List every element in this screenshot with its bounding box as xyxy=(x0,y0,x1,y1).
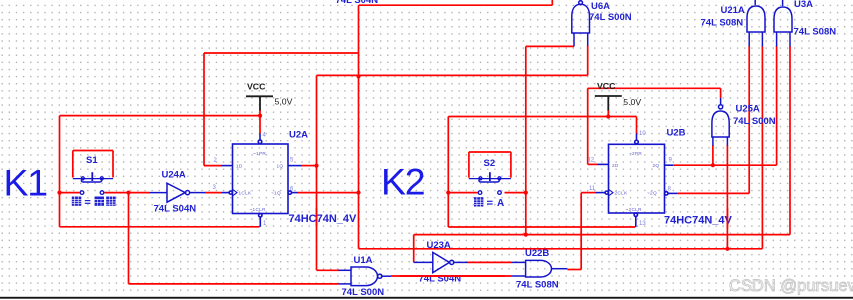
wire U21A input A vertical xyxy=(748,46,750,193)
wire U3A input B vertical xyxy=(789,46,791,235)
wire U2A ~1Q to node xyxy=(298,192,359,194)
wire to U1A input A xyxy=(317,269,340,271)
wire U1A output over label xyxy=(400,275,505,277)
svg-text:S1: S1 xyxy=(86,155,98,166)
pin 5 U2A xyxy=(290,158,294,164)
wire VCC1 rail vertical left xyxy=(59,116,61,227)
label U22B xyxy=(525,248,549,259)
wire S2 left terminal xyxy=(448,192,477,194)
pin 1 U2A xyxy=(263,221,267,227)
svg-text:10: 10 xyxy=(639,131,646,137)
label U2A part number xyxy=(289,213,358,225)
wire U2A 1Q to node xyxy=(302,165,317,167)
svg-text:U1A: U1A xyxy=(354,255,373,266)
inverter U24A xyxy=(150,183,206,202)
label VCC1 voltage xyxy=(275,97,293,107)
svg-text:~1Q: ~1Q xyxy=(271,190,281,195)
inverter U23A xyxy=(414,252,468,272)
pin 8 U2B xyxy=(668,186,672,192)
svg-text:2CLK: 2CLK xyxy=(615,190,628,195)
wire 1Q net vertical over label xyxy=(316,208,318,226)
label VCC1 xyxy=(247,82,266,92)
wire U25A input B vertical xyxy=(726,145,728,249)
svg-text:1Q: 1Q xyxy=(277,163,284,168)
svg-text:74HC74N_4V: 74HC74N_4V xyxy=(664,214,733,226)
flip-flop U2A 74HC74 xyxy=(221,134,302,227)
junction VCC2 rail xyxy=(606,114,610,118)
NAND gate U25A (vertical) xyxy=(712,98,729,146)
label U1A part number xyxy=(342,287,385,298)
flip-flop U2B 74HC74 xyxy=(596,134,678,228)
wire U2B ~2CLR horizontal xyxy=(448,226,635,228)
wire netA horizontal y249 xyxy=(359,248,763,250)
wire U2A ~1CLR net xyxy=(60,226,260,228)
pin 10 U2B xyxy=(639,131,646,137)
svg-text:K2: K2 xyxy=(381,161,424,203)
svg-text:U6A: U6A xyxy=(591,1,610,12)
svg-text:1D: 1D xyxy=(236,163,243,168)
wire S1 left terminal xyxy=(60,192,80,194)
label U25A part number xyxy=(733,116,776,127)
svg-text:VCC: VCC xyxy=(247,82,266,92)
svg-text:11: 11 xyxy=(589,186,596,192)
wire VCC1 to U2A ~1PR xyxy=(259,110,261,134)
wire U2A 1D net vertical xyxy=(203,53,205,166)
svg-text:13: 13 xyxy=(639,221,646,227)
label VCC2 xyxy=(597,81,616,91)
pin 13 U2B xyxy=(639,221,646,227)
wire S1 node vertical to U1A xyxy=(128,193,130,284)
label S2 xyxy=(484,158,496,169)
U2B internal pin names xyxy=(612,151,659,212)
wire S1 loop left xyxy=(72,151,74,178)
label U23A xyxy=(427,240,451,251)
wire U25A output horizontal y88 xyxy=(588,87,721,89)
wire S1 loop right xyxy=(112,151,114,178)
wire top horizontal y5 xyxy=(359,4,553,6)
svg-text:5.0V: 5.0V xyxy=(275,97,293,107)
pin 11 U2B xyxy=(589,186,596,192)
wire to U2B 2D xyxy=(588,163,598,165)
wire S2 loop right xyxy=(510,152,512,178)
wire U23A input vertical xyxy=(413,235,415,263)
wire VCC1 rail horizontal xyxy=(60,115,261,117)
wire net75 horizontal to U6A xyxy=(317,74,588,76)
switch S1 xyxy=(73,172,113,194)
wire U3A input A vertical xyxy=(776,46,778,165)
junction VCC1 rail xyxy=(258,114,262,118)
wire U2A 1D net horizontal xyxy=(204,165,221,167)
svg-text:74L S08N: 74L S08N xyxy=(701,17,744,28)
junction netA x727 xyxy=(725,247,729,251)
wire 1Q net vertical xyxy=(316,75,318,270)
pin 4 U2A xyxy=(263,133,267,139)
junction net75 x358 xyxy=(356,74,360,78)
label S2 key caption xyxy=(474,197,504,209)
svg-text:U2A: U2A xyxy=(289,130,308,141)
svg-text:CSDN @pursuev: CSDN @pursuev xyxy=(729,277,853,295)
junction net234 x526 xyxy=(524,233,528,237)
wire net88 vertical to 2D xyxy=(587,88,589,164)
U2A internal pin names xyxy=(236,151,283,212)
AND gate U22B xyxy=(512,260,568,277)
wire U21A input B vertical xyxy=(761,46,763,249)
wire U6A input B vertical xyxy=(587,46,589,76)
junction S1 right node xyxy=(126,191,130,195)
wire S2 loop left xyxy=(468,152,470,178)
junction S2 right node xyxy=(524,191,528,195)
pin 12 U2B xyxy=(588,158,595,164)
svg-text:74L S00N: 74L S00N xyxy=(733,116,776,127)
wire U22B output segment xyxy=(567,269,581,271)
svg-text:74L S04N: 74L S04N xyxy=(154,204,197,215)
label U21A part number xyxy=(701,17,744,28)
VCC1 power symbol xyxy=(246,96,273,110)
label VCC2 voltage xyxy=(623,97,641,107)
svg-text:~2CLR: ~2CLR xyxy=(626,207,643,212)
junction 1Q node xyxy=(314,164,318,168)
svg-text:~1PR: ~1PR xyxy=(253,151,266,156)
svg-text:U2B: U2B xyxy=(667,128,686,139)
svg-text:U22B: U22B xyxy=(525,248,549,259)
svg-text:K1: K1 xyxy=(4,162,48,204)
svg-text:74L S04N: 74L S04N xyxy=(419,273,462,284)
label U22B part number xyxy=(516,280,559,291)
wire U23A output to U22B xyxy=(468,261,512,263)
wire U25A input A vertical xyxy=(712,145,714,165)
svg-text:S2: S2 xyxy=(484,158,496,169)
VCC2 power symbol xyxy=(595,96,622,111)
wire U2B ~2Q net horizontal xyxy=(678,192,750,194)
label U25A xyxy=(736,104,760,115)
svg-text:U25A: U25A xyxy=(736,104,760,115)
svg-text:2Q: 2Q xyxy=(653,163,660,168)
wire VCC2 vertical to ~2CLR xyxy=(447,117,449,228)
svg-text:A: A xyxy=(497,198,504,209)
wire net234 horizontal xyxy=(414,234,790,236)
wire S1 loop top xyxy=(73,150,113,152)
label U6A xyxy=(591,1,610,12)
label U24A part number xyxy=(154,204,197,215)
label U21A xyxy=(721,5,745,16)
svg-text:~2Q: ~2Q xyxy=(647,190,657,195)
wire VCC2 rail horizontal xyxy=(448,116,636,118)
label U2A xyxy=(289,130,308,141)
wire U6A input A vertical xyxy=(525,46,527,234)
label U1A xyxy=(354,255,373,266)
AND gate U21A (vertical) xyxy=(747,0,765,46)
wire 1D net top horizontal xyxy=(204,52,359,54)
svg-text:~1CLR: ~1CLR xyxy=(250,207,267,212)
pin 9 U2B xyxy=(669,158,673,164)
svg-text:74L S08N: 74L S08N xyxy=(516,280,559,291)
svg-text:74L S00N: 74L S00N xyxy=(589,12,632,23)
wire U6A input A horizontal xyxy=(526,45,574,47)
wire top stub up x552 xyxy=(551,0,553,5)
label S1 key caption xyxy=(72,197,116,206)
svg-text:~2PR: ~2PR xyxy=(629,151,642,156)
svg-text:VCC: VCC xyxy=(597,81,616,91)
svg-text:74HC74N_4V: 74HC74N_4V xyxy=(289,213,358,225)
AND gate U3A (vertical) xyxy=(774,0,792,46)
wire U25A input B over label xyxy=(726,208,728,228)
svg-text:U23A: U23A xyxy=(427,240,451,251)
svg-text:1CLK: 1CLK xyxy=(239,190,252,195)
svg-text:12: 12 xyxy=(588,158,595,164)
wire U24A output to U2A CLK xyxy=(205,192,222,194)
svg-text:U21A: U21A xyxy=(721,5,745,16)
NAND gate U1A xyxy=(339,267,392,286)
wire S1 to U24A input xyxy=(105,192,150,194)
svg-text:2D: 2D xyxy=(612,163,619,168)
svg-text:74L S00N: 74L S00N xyxy=(342,287,385,298)
watermark xyxy=(729,277,853,295)
svg-text:5.0V: 5.0V xyxy=(623,97,641,107)
wire U22B output vertical to 2CLK xyxy=(580,193,582,270)
junction S2 left node xyxy=(446,191,450,195)
wire S2 right terminal to node xyxy=(505,192,526,194)
label U3A part number xyxy=(794,27,837,38)
node K1 label xyxy=(4,162,48,204)
svg-text:U24A: U24A xyxy=(162,170,186,181)
svg-text:74L S08N: 74L S08N xyxy=(794,27,837,38)
pin 6 U2A xyxy=(290,187,294,193)
node K2 label xyxy=(381,161,424,203)
label top inverter part number (cut) xyxy=(336,0,379,6)
svg-text:74L S04N: 74L S04N xyxy=(336,0,379,6)
NAND gate U6A (vertical) xyxy=(572,1,590,47)
svg-text:U3A: U3A xyxy=(794,0,813,10)
pin 2 U2A xyxy=(214,158,218,164)
wire to U1A input B xyxy=(129,283,339,285)
label U3A xyxy=(794,0,813,10)
wire U25A output down to bubble xyxy=(720,88,722,98)
wire U2B 2Q net horizontal xyxy=(673,164,776,166)
wire U1A output to U22B xyxy=(391,275,512,277)
junction 2Q node xyxy=(711,163,715,167)
wire S2 loop top xyxy=(469,151,511,153)
wire inverter net vertical x358 xyxy=(358,5,360,249)
label U24A xyxy=(162,170,186,181)
wire to U2B 2CLK xyxy=(581,192,595,194)
label S1 xyxy=(86,155,98,166)
junction S1 left node xyxy=(57,191,61,195)
pin 3 U2A xyxy=(213,185,217,191)
switch S2 xyxy=(469,172,511,194)
label U23A part number xyxy=(419,273,462,284)
label U2B xyxy=(667,128,686,139)
wire VCC2 lead xyxy=(607,110,609,117)
bottom border xyxy=(0,297,853,299)
label U6A part number xyxy=(589,12,632,23)
label U2B part number xyxy=(664,214,733,226)
wire VCC2 to U2B ~2PR xyxy=(636,117,638,134)
junction ~1Q node xyxy=(356,191,360,195)
